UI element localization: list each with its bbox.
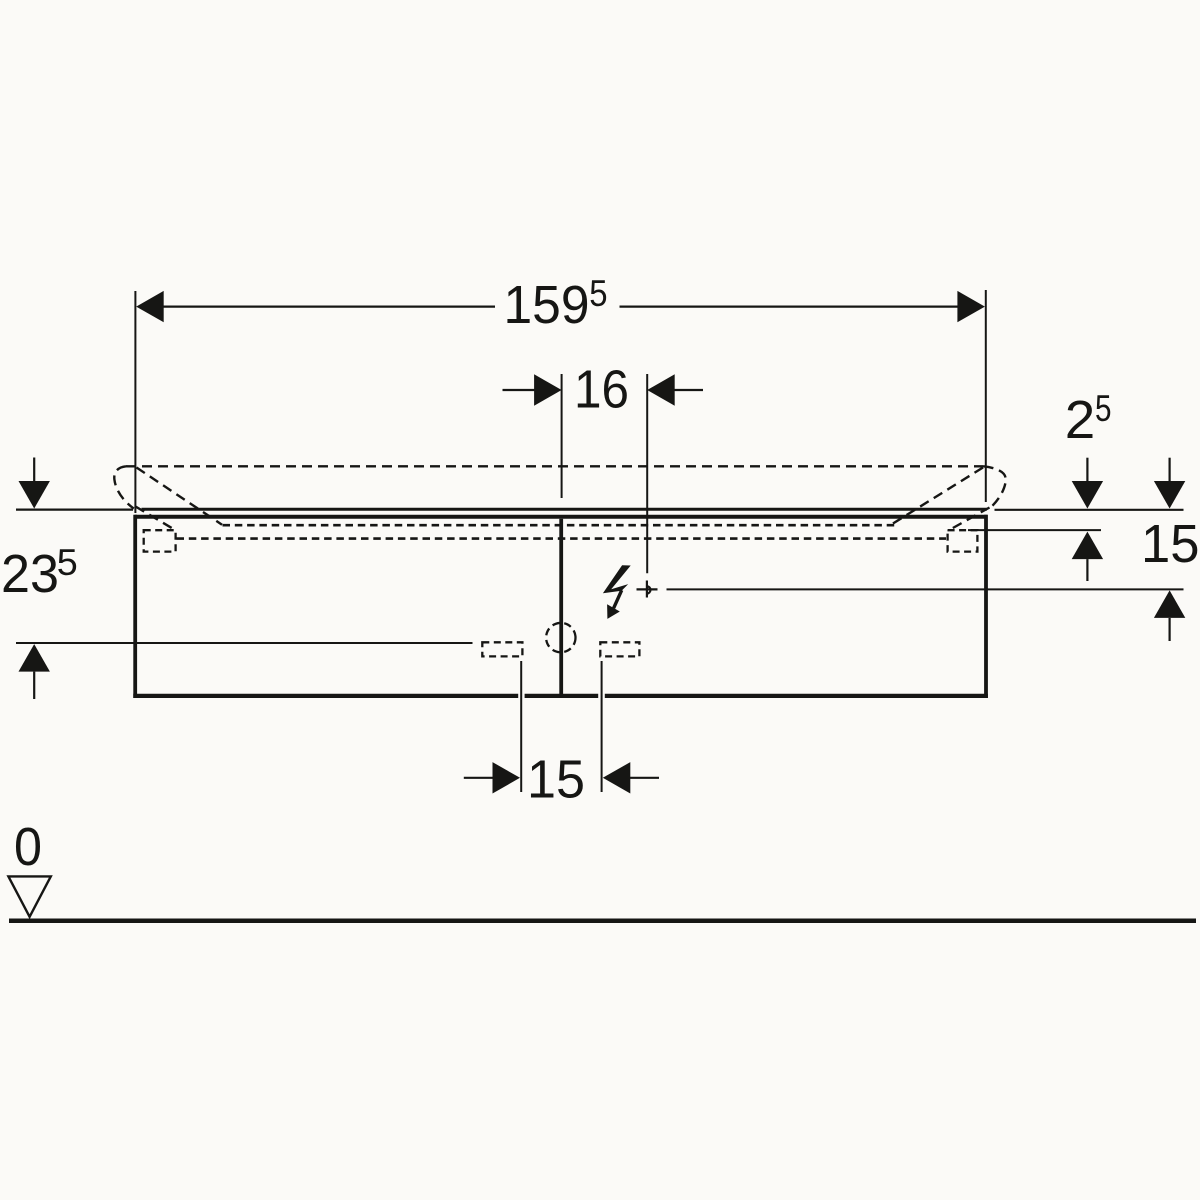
23.5 level line — [16, 642, 473, 644]
svg-text:15: 15 — [527, 750, 585, 810]
dim 15 bottom left arrow stem — [464, 777, 493, 779]
dim 159.5 right arrowhead — [957, 291, 985, 322]
drain dashed rectangle left — [482, 642, 522, 656]
svg-text:5: 5 — [57, 542, 78, 583]
dim 15 right down arrowhead — [1154, 481, 1185, 509]
floor line — [9, 918, 1196, 923]
dim 15 bottom left arrowhead — [493, 762, 521, 793]
dim 16 right arrowhead — [647, 374, 675, 405]
dim 23.5 down arrow stem — [33, 458, 35, 482]
dim 159.5 left arrowhead — [136, 291, 164, 322]
cabinet left wall — [133, 515, 137, 698]
dim 16 left arrow stem — [503, 389, 536, 391]
svg-text:159: 159 — [504, 275, 590, 335]
lightning bolt arrowhead — [607, 604, 620, 619]
basin right outer slope to foot — [948, 508, 990, 532]
siphon dashed circle — [546, 623, 575, 652]
dim 159.5 left extension line — [134, 291, 136, 513]
top reference line left of cabinet — [16, 509, 133, 511]
dim 16 left extension line — [561, 374, 563, 498]
dim 2.5 up arrowhead — [1072, 532, 1103, 560]
cabinet right wall — [984, 515, 988, 698]
dim 15 bottom right arrow stem — [630, 777, 659, 779]
basin right end cap — [984, 466, 1006, 508]
reference line 2.5 below top — [968, 529, 1101, 531]
dim 159.5 line right segment — [620, 306, 960, 308]
outlet position cross horizontal — [637, 588, 658, 590]
basin left inner slope — [137, 468, 223, 525]
basin left outer slope to foot — [136, 507, 177, 531]
dim 16 right extension line — [646, 374, 648, 573]
basin right mounting foot — [948, 530, 978, 551]
top reference line right of cabinet — [995, 509, 1184, 511]
cabinet center divider — [559, 519, 563, 694]
dim 2.5 down arrow stem — [1086, 458, 1088, 481]
basin rim top dashed line — [126, 465, 984, 467]
basin left mounting foot — [144, 530, 176, 551]
svg-text:5: 5 — [589, 273, 607, 314]
dim 23.5 down arrowhead — [19, 481, 50, 509]
dim 159.5 line left segment — [160, 306, 495, 308]
datum triangle — [8, 876, 50, 916]
dim 2.5 down arrowhead — [1072, 481, 1103, 509]
cabinet top edge — [135, 515, 988, 519]
svg-text:5: 5 — [1095, 388, 1112, 429]
cabinet bottom edge segment 3 — [605, 694, 988, 698]
cabinet bottom edge segment 1 — [133, 694, 518, 698]
dim 16 left arrowhead — [534, 374, 562, 405]
basin left end cap — [114, 466, 134, 508]
dim 15 bottom right arrowhead — [603, 762, 631, 793]
dim 16 right extension line lower segment through cross — [646, 581, 648, 598]
dim 16 right arrow stem — [673, 389, 703, 391]
dim 15 right up arrow stem — [1168, 618, 1170, 641]
basin right inner slope — [891, 468, 984, 526]
dim 23.5 up arrowhead — [19, 644, 50, 672]
lightning bolt electrical symbol body — [603, 565, 631, 593]
outlet position hook arc — [647, 586, 651, 593]
basin bowl bottom dashed line — [223, 524, 897, 527]
dim 15 bottom right extension line — [601, 661, 603, 792]
svg-text:0: 0 — [14, 817, 42, 877]
washbasin dashed outline — [114, 466, 1005, 538]
drain dashed rectangle right — [600, 642, 639, 656]
countertop slab top edge — [142, 508, 987, 511]
svg-text:23: 23 — [1, 544, 59, 604]
lightning bolt shaft — [614, 590, 622, 608]
basin rim bottom dashed line — [177, 537, 947, 540]
svg-text:16: 16 — [574, 360, 629, 420]
dim 15 bottom left extension line — [520, 661, 522, 792]
dim 15 right down arrow stem — [1168, 458, 1170, 481]
dim 2.5 up arrow stem — [1086, 559, 1088, 581]
svg-text:2: 2 — [1065, 390, 1096, 450]
svg-text:15: 15 — [1141, 514, 1200, 574]
cabinet bottom edge segment 2 — [525, 694, 599, 698]
dim 23.5 up arrow stem — [33, 672, 35, 699]
dim 15 right up arrowhead — [1154, 590, 1185, 618]
dim 159.5 right extension line — [985, 290, 987, 502]
electrical outlet level line — [667, 588, 1184, 590]
